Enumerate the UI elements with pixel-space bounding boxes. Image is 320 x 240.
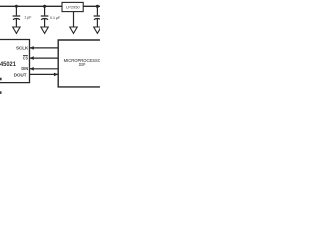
arrowhead SCLK left bbox=[30, 46, 34, 50]
svg-text:DIN: DIN bbox=[21, 66, 28, 71]
ground under U1 bbox=[70, 27, 77, 33]
overline of CS bbox=[23, 54, 28, 56]
ground under C1 bbox=[13, 27, 20, 33]
wire DOUT bbox=[30, 73, 59, 75]
wire CS bbox=[30, 57, 59, 59]
arrowhead CS left bbox=[30, 56, 34, 60]
microprocessor U3 box outline bbox=[58, 40, 107, 87]
svg-text:LP2950: LP2950 bbox=[66, 5, 80, 10]
arrowhead DOUT right bbox=[54, 73, 58, 77]
ADC U2 box outline bbox=[0, 40, 30, 83]
wire DIN bbox=[30, 68, 59, 70]
regulator U1 LP2950 box bbox=[62, 2, 83, 11]
capacitor C1 1uF bbox=[13, 6, 21, 27]
cut text fragment left edge B bbox=[0, 91, 2, 94]
svg-text:DSP: DSP bbox=[79, 62, 86, 67]
ground under C3 bbox=[94, 27, 101, 33]
wire top supply rail left bbox=[0, 5, 62, 7]
svg-text:1 µF: 1 µF bbox=[24, 14, 32, 19]
node junction J3 bbox=[96, 5, 99, 8]
svg-text:45021: 45021 bbox=[0, 61, 16, 68]
svg-text:SCLK: SCLK bbox=[16, 46, 29, 51]
svg-text:DOUT: DOUT bbox=[14, 73, 27, 78]
svg-text:CS: CS bbox=[23, 56, 28, 61]
capacitor C2 0.1uF bbox=[41, 6, 49, 27]
node junction J2 bbox=[43, 5, 46, 8]
wire SCLK bbox=[30, 47, 59, 49]
svg-text:0.1 µF: 0.1 µF bbox=[50, 15, 61, 20]
wire top supply rail right bbox=[83, 5, 100, 7]
cut text fragment left edge A bbox=[0, 78, 2, 81]
wire U1 ground lead bbox=[73, 12, 75, 27]
node junction J1 bbox=[15, 5, 18, 8]
ground under C2 bbox=[41, 27, 48, 33]
arrowhead DIN left bbox=[30, 67, 34, 71]
capacitor C3 bbox=[94, 6, 102, 27]
